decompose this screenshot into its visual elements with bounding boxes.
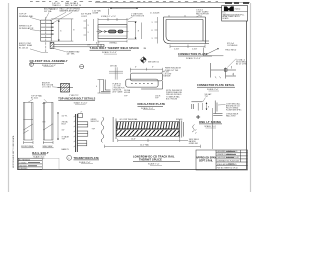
svg-text:8: 8 <box>208 107 209 109</box>
title block signature strokes <box>226 152 236 164</box>
svg-text:EA SIDE: EA SIDE <box>164 75 172 78</box>
title block <box>196 150 248 170</box>
svg-text:1 ISSUED: 1 ISSUED <box>19 162 27 164</box>
channel outline <box>164 17 210 44</box>
svg-text:NO. REVISION: NO. REVISION <box>19 159 31 161</box>
svg-text:1/2": 1/2" <box>62 129 65 131</box>
dim arrows pair <box>203 103 208 111</box>
stud plate detail figure <box>211 63 237 79</box>
stack body <box>41 20 52 41</box>
top tick <box>107 9 109 15</box>
right boundary line <box>212 108 214 149</box>
rail left end lines <box>113 117 116 142</box>
svg-text:12'-6": 12'-6" <box>131 139 136 141</box>
scan edge right <box>250 3 252 192</box>
hex anchor bolt <box>61 84 70 93</box>
svg-text:RAIL SUPPORT: RAIL SUPPORT <box>196 13 210 16</box>
scan edge left <box>8 3 10 192</box>
svg-text:4: 4 <box>96 86 97 88</box>
svg-text:CD-FDXT RAIL ASSEMBLY: CD-FDXT RAIL ASSEMBLY <box>30 59 68 63</box>
svg-text:2 L 3x3x3/8: 2 L 3x3x3/8 <box>150 13 159 15</box>
clip angle part <box>101 80 111 94</box>
plate corner extension <box>162 81 164 89</box>
microfilm header tick row <box>30 1 218 3</box>
leader to holes note <box>127 17 133 20</box>
svg-text:CLIP ANGLE: CLIP ANGLE <box>227 44 238 47</box>
svg-text:SCALE: 3"=1'-0": SCALE: 3"=1'-0" <box>42 64 56 67</box>
svg-text:T-RAIL BOLT THERMIT WELD SPLIC: T-RAIL BOLT THERMIT WELD SPLICE <box>90 47 140 50</box>
invert slab lines <box>54 43 104 45</box>
svg-text:2'-3/4": 2'-3/4" <box>192 49 197 51</box>
top stud above plate <box>78 114 83 118</box>
svg-text:FIELD WELD: FIELD WELD <box>225 49 236 51</box>
stack dim line inner <box>58 20 59 41</box>
channel top ticks <box>169 15 201 17</box>
svg-text:W/ INSULATOR: W/ INSULATOR <box>19 27 34 30</box>
svg-text:SCALE: 3"=1': SCALE: 3"=1' <box>207 88 219 91</box>
channel left dim <box>155 17 158 44</box>
dim between bars and plate <box>57 112 58 140</box>
flag circle under title A <box>29 62 33 66</box>
svg-text:RAIL BOLT: RAIL BOLT <box>32 151 49 155</box>
svg-text:3: 3 <box>88 25 89 27</box>
rail hatched band 1 <box>117 122 180 129</box>
side view bar <box>43 102 53 140</box>
svg-text:5/8" DIA: 5/8" DIA <box>110 64 117 67</box>
svg-text:CONT.: CONT. <box>81 16 87 18</box>
svg-text:PLATE 1/4" THK: PLATE 1/4" THK <box>165 69 179 72</box>
scan top line <box>95 2 250 4</box>
clip angle dim <box>98 80 104 94</box>
svg-text:FILE NO. SHEET 14 OF 44: FILE NO. SHEET 14 OF 44 <box>217 168 238 170</box>
bracket squiggle <box>192 125 195 133</box>
bolt 2 <box>77 131 88 136</box>
dim line 1 below rail <box>118 139 188 142</box>
svg-text:3: 3 <box>88 32 89 34</box>
front view bar <box>24 102 34 140</box>
svg-text:CONNECTION PLATE: CONNECTION PLATE <box>178 52 208 56</box>
top line <box>191 101 202 103</box>
detail bubble right of title <box>80 65 84 69</box>
sheet border frame <box>18 8 247 170</box>
bolt 3 <box>77 141 87 146</box>
svg-text:SCALE: 1"=1': SCALE: 1"=1' <box>148 163 160 166</box>
svg-text:metro: metro <box>235 8 241 11</box>
svg-text:x 6" LONG: x 6" LONG <box>42 87 51 89</box>
break squiggle <box>101 117 104 142</box>
dim line above bar <box>98 18 127 24</box>
svg-text:1/4" THK: 1/4" THK <box>67 54 76 56</box>
section target symbol <box>140 56 147 63</box>
svg-text:RUNNING RAIL: RUNNING RAIL <box>19 15 34 18</box>
leader note <box>203 98 206 102</box>
plate outline upper <box>130 73 162 81</box>
cross pin part <box>109 67 123 79</box>
dim line below bar <box>98 40 127 43</box>
title block rows <box>217 151 239 169</box>
revision box bottom left <box>18 158 42 169</box>
svg-text:24'-0" RAIL: 24'-0" RAIL <box>140 143 149 146</box>
svg-text:APPROACH SPAN: APPROACH SPAN <box>196 156 216 159</box>
plate outline lower <box>126 79 158 87</box>
stud leader <box>227 59 236 68</box>
svg-text:FLUSH SEE SPEC: FLUSH SEE SPEC <box>226 110 242 112</box>
svg-text:EL 103.25: EL 103.25 <box>19 47 29 49</box>
top dim line <box>110 8 138 9</box>
second vertical dim <box>141 23 143 40</box>
arrow marks in bar <box>98 30 107 34</box>
svg-text:NO. 4: NO. 4 <box>50 9 55 11</box>
svg-text:SIDE VIEW: SIDE VIEW <box>43 146 53 148</box>
svg-text:BASE PL: BASE PL <box>62 148 70 151</box>
svg-text:AT 3" GAGE: AT 3" GAGE <box>113 91 124 94</box>
rail right end <box>180 119 184 139</box>
svg-text:BOLT HOLES: BOLT HOLES <box>166 98 178 100</box>
dim line 2 below rail <box>105 145 201 148</box>
logo box <box>222 6 248 22</box>
svg-text:TOP ANCHOR BOLT DETAILS: TOP ANCHOR BOLT DETAILS <box>58 98 95 101</box>
svg-text:ONE LT SIDING: ONE LT SIDING <box>199 120 221 124</box>
svg-text:TRACK 4: TRACK 4 <box>52 4 61 7</box>
stack dim line outer <box>51 19 73 41</box>
svg-text:SCALE: 3"=1': SCALE: 3"=1' <box>79 161 91 164</box>
svg-text:SEPT 3 RAIL: SEPT 3 RAIL <box>199 159 214 162</box>
leaders from top labels <box>45 12 72 24</box>
dims below bars <box>24 141 54 144</box>
svg-text:SECT A-2 SHT 14: SECT A-2 SHT 14 <box>65 4 82 7</box>
rail hatched band 2 <box>117 130 180 137</box>
svg-text:2" MIN TYP: 2" MIN TYP <box>69 95 79 97</box>
svg-text:3 REVISED: 3 REVISED <box>19 168 28 170</box>
svg-text:SCALE: 3"=1': SCALE: 3"=1' <box>204 125 216 128</box>
svg-text:SCALE: 3"=1'-0": SCALE: 3"=1'-0" <box>74 101 88 104</box>
fibre insulator note <box>160 71 165 74</box>
L angle part <box>213 101 222 116</box>
vertical dim right of bar <box>128 22 137 40</box>
vertical dim pair left of view B <box>84 19 94 41</box>
svg-text:RAIL JOINT: RAIL JOINT <box>226 115 237 118</box>
tick pair left <box>192 104 194 109</box>
M logo <box>224 6 234 11</box>
center pin <box>197 103 199 111</box>
svg-text:TRANSITION PLATE: TRANSITION PLATE <box>74 157 100 160</box>
svg-text:1/2" PL: 1/2" PL <box>62 116 68 118</box>
svg-text:CONNECTOR PLATE DETAIL: CONNECTOR PLATE DETAIL <box>197 84 235 87</box>
svg-text:AT 12" CTRS: AT 12" CTRS <box>236 63 247 66</box>
svg-text:GRIND SM: GRIND SM <box>189 143 198 145</box>
svg-text:CLEAR: CLEAR <box>92 12 99 15</box>
svg-text:3: 3 <box>152 38 153 40</box>
svg-text:CONTRACT NO. F-2077-CM: CONTRACT NO. F-2077-CM <box>217 159 239 162</box>
side bar cross ticks <box>42 104 45 122</box>
ticks on stud detail <box>215 66 234 78</box>
slab ticks <box>98 44 104 47</box>
channel bottom dim <box>170 45 205 49</box>
svg-text:2: 2 <box>232 74 233 76</box>
svg-text:4'-1": 4'-1" <box>96 43 100 45</box>
plate hole dashes <box>131 83 153 85</box>
hatch ticks on plate <box>74 116 76 148</box>
slots <box>109 30 124 33</box>
svg-text:MICROFILMED SEPT 3 1981 WMATA: MICROFILMED SEPT 3 1981 WMATA <box>12 135 15 168</box>
svg-text:SEE DWG 12: SEE DWG 12 <box>148 62 159 64</box>
svg-text:WASHER ASSEMBLY: WASHER ASSEMBLY <box>60 10 80 13</box>
svg-text:SCALE: 3"=1'-0": SCALE: 3"=1'-0" <box>102 51 117 54</box>
plus mark <box>196 115 200 119</box>
svg-text:4 SPA @ 6" = 2'-0": 4 SPA @ 6" = 2'-0" <box>101 15 116 18</box>
svg-text:8: 8 <box>152 30 153 32</box>
svg-text:HOLES: HOLES <box>124 92 131 94</box>
svg-text:SMOOTH: SMOOTH <box>91 121 100 123</box>
detail bubble <box>67 155 72 160</box>
microfilm index marks top right <box>225 2 249 4</box>
svg-text:FRONT VIEW: FRONT VIEW <box>21 146 33 148</box>
bolt 1 <box>77 122 88 127</box>
weld symbol figure <box>204 48 224 56</box>
anchor block hatched <box>50 42 54 48</box>
bar centerlines <box>97 31 129 33</box>
svg-text:BOARD: BOARD <box>223 17 230 20</box>
svg-text:2'-3/4": 2'-3/4" <box>174 49 179 51</box>
stack centerline <box>45 17 47 53</box>
svg-text:SCALE: 3"=1'-0": SCALE: 3"=1'-0" <box>186 57 201 60</box>
svg-text:SCALE AS SHOWN DWG: SCALE AS SHOWN DWG <box>217 163 237 166</box>
svg-text:SCALE: 3"=1': SCALE: 3"=1' <box>33 155 45 158</box>
plate top dim <box>130 68 162 73</box>
plate bar <box>76 114 78 152</box>
svg-text:60' CONT WELD RAIL: 60' CONT WELD RAIL <box>120 118 138 121</box>
svg-text:THERMIT SPLICE: THERMIT SPLICE <box>139 159 162 162</box>
svg-text:3: 3 <box>152 22 153 24</box>
stack bolt ticks <box>51 24 53 34</box>
microfilm caption text top left <box>52 2 82 7</box>
svg-text:EL 104.2: EL 104.2 <box>31 98 38 100</box>
svg-text:FOR 7/8 BOLTS: FOR 7/8 BOLTS <box>131 15 145 17</box>
squiggle ticks <box>195 129 197 133</box>
splice bar body <box>98 25 127 39</box>
svg-text:INSULATOR PLATE: INSULATOR PLATE <box>138 102 166 106</box>
svg-text:OVERALL: OVERALL <box>109 42 117 45</box>
